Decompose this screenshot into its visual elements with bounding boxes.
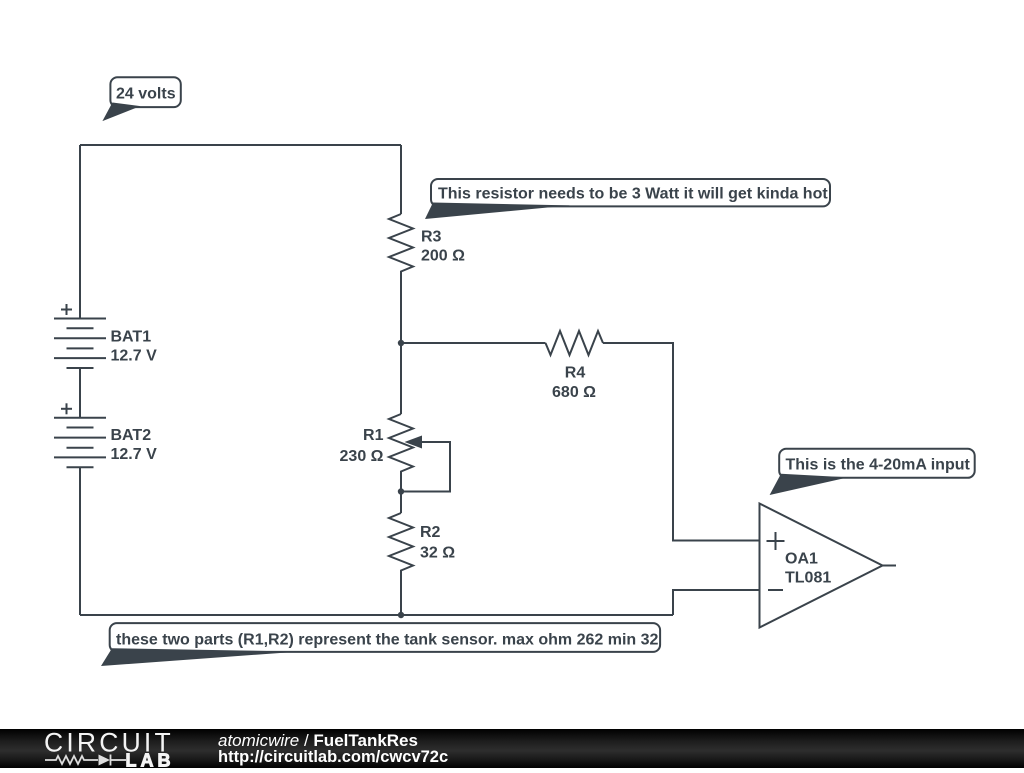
annotation bubble: This resistor needs to be 3 Watt [425,179,830,219]
wire left vertical to BAT1 [79,145,81,319]
wire R1 to node B [400,474,402,492]
svg-text:R1: R1 [363,427,384,444]
svg-text:This resistor needs to be 3 Wa: This resistor needs to be 3 Watt it will… [438,186,828,203]
svg-text:680 Ω: 680 Ω [552,384,596,401]
annotation bubble: these two parts represent the tank sensor [101,623,660,666]
battery BAT2 [54,403,106,467]
op-amp output wire [883,565,897,567]
svg-text:200 Ω: 200 Ω [421,248,465,265]
svg-text:R2: R2 [420,524,441,541]
op-amp plus pin symbol [767,532,785,550]
annotation bubble: This is the 4-20mA input [770,449,975,495]
wire R3 to node A [400,274,402,343]
R1 wiper arrowhead [405,436,423,449]
battery BAT1 [54,304,106,368]
resistor R3 [389,214,413,274]
svg-text:230 Ω: 230 Ω [340,448,384,465]
svg-text:32 Ω: 32 Ω [420,545,455,562]
svg-text:12.7 V: 12.7 V [111,446,158,463]
wire bottom rail [80,614,673,616]
svg-text:LAB: LAB [126,751,175,769]
wire BAT1 to BAT2 [79,368,81,418]
svg-text:BAT1: BAT1 [111,328,152,345]
op-amp minus pin symbol [768,589,783,591]
node A junction dot [398,340,404,346]
wire node A to R1 [400,343,402,414]
wire node A to R4 [401,342,546,344]
wire node B to R2 [400,492,402,514]
svg-text:R4: R4 [565,365,586,382]
op-amp OA1 [760,504,883,628]
wire BAT2 to bottom rail [79,467,81,615]
node C junction dot [398,612,404,618]
wire R4 to op-amp plus input [603,343,760,541]
wire top rail right vertical to R3 [400,145,402,214]
svg-text:OA1: OA1 [785,551,818,568]
svg-text:24 volts: 24 volts [116,86,176,103]
wire R2 to bottom rail [400,573,402,615]
resistor R2 [389,513,413,573]
resistor R4 [546,331,604,355]
svg-text:TL081: TL081 [785,570,831,587]
svg-text:R3: R3 [421,229,442,246]
wire bottom rail to op-amp minus input [673,590,760,615]
svg-text:12.7 V: 12.7 V [111,348,158,365]
R1 wiper arm wire [401,442,450,492]
annotation bubble: 24 volts [102,77,180,121]
svg-text:http://circuitlab.com/cwcv72c: http://circuitlab.com/cwcv72c [218,748,448,766]
svg-text:BAT2: BAT2 [111,427,152,444]
svg-text:This is the 4-20mA input: This is the 4-20mA input [786,457,971,474]
node B junction dot [398,488,404,494]
CircuitLab logo mini schematic (resistor and diode) [45,755,126,766]
potentiometer R1 [389,414,413,474]
footer bar [0,729,1024,768]
svg-text:these two parts (R1,R2) repres: these two parts (R1,R2) represent the ta… [116,632,659,649]
wire top rail [80,144,401,146]
